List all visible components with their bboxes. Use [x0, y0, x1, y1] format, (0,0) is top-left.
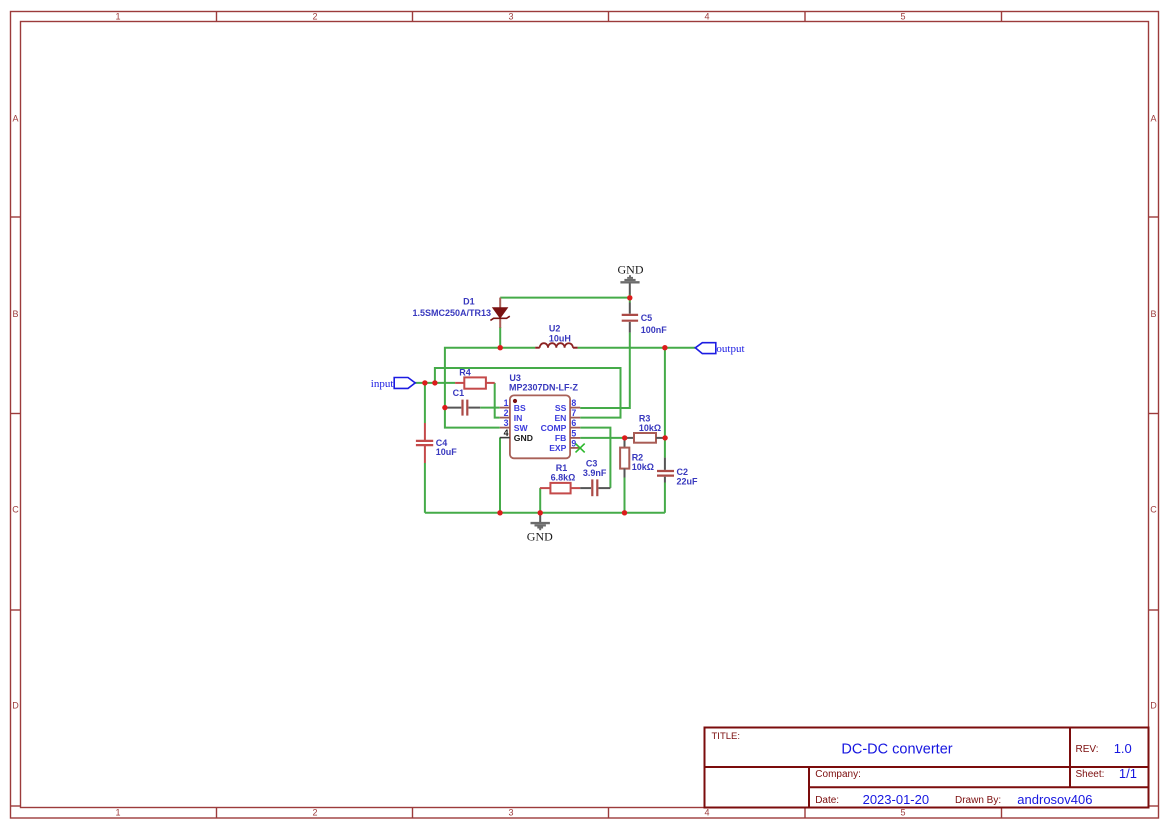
wire C5 bottom to pin8 SS [580, 333, 630, 408]
svg-text:androsov406: androsov406 [1017, 792, 1092, 807]
svg-text:U3: U3 [509, 373, 521, 383]
svg-text:DC-DC converter: DC-DC converter [841, 742, 952, 758]
junction FB/R3/R2 [622, 435, 627, 440]
resistor R3 10k [625, 414, 665, 443]
junction SW/C1 [442, 405, 447, 410]
svg-text:input: input [371, 378, 394, 390]
junction D1/SW rail [498, 345, 503, 350]
svg-text:output: output [716, 343, 744, 355]
resistor R2 10k [620, 438, 654, 478]
capacitor C2 22uF [657, 458, 698, 487]
junction R3/C2 riser [662, 435, 667, 440]
svg-text:8: 8 [571, 398, 576, 408]
wire COMP pin6 to C3 [580, 428, 610, 488]
svg-text:EXP: EXP [549, 443, 566, 453]
svg-text:9: 9 [571, 438, 576, 448]
wire bottom ground rail [425, 512, 665, 514]
svg-text:TITLE:: TITLE: [712, 731, 741, 742]
ground symbol bottom (GND below rail) [527, 513, 553, 544]
svg-text:1: 1 [115, 12, 120, 22]
svg-text:10kΩ: 10kΩ [639, 423, 661, 433]
svg-text:R4: R4 [459, 367, 471, 377]
wire R4 right leg to pin2 [495, 383, 500, 418]
resistor R4 [455, 367, 495, 388]
diode D1 1.5SMC250A/TR13 [412, 297, 509, 328]
svg-text:EN: EN [554, 413, 566, 423]
wire FB pin5 to R3/R2 junction [580, 437, 625, 439]
svg-text:C: C [1150, 505, 1157, 515]
capacitor C3 3.9nF [580, 458, 610, 496]
svg-text:R1: R1 [556, 463, 568, 473]
svg-text:1.5SMC250A/TR13: 1.5SMC250A/TR13 [412, 308, 491, 318]
svg-text:100nF: 100nF [641, 325, 668, 335]
svg-text:Date:: Date: [815, 795, 839, 806]
svg-text:B: B [1150, 309, 1156, 319]
svg-text:5: 5 [900, 12, 905, 22]
svg-text:1: 1 [115, 808, 120, 818]
wire R1 left leg to rail [539, 488, 541, 513]
wire SW node: riser, pin3 leg and top rail to inductor [445, 348, 535, 428]
svg-text:A: A [1150, 114, 1156, 124]
svg-text:Drawn By:: Drawn By: [955, 795, 1001, 806]
wire inductor to output port [578, 347, 696, 349]
svg-text:5: 5 [571, 428, 576, 438]
svg-text:22uF: 22uF [677, 477, 699, 487]
wire C4 top leg [424, 383, 426, 423]
svg-text:C3: C3 [586, 458, 598, 468]
svg-text:IN: IN [514, 413, 523, 423]
svg-text:C1: C1 [453, 388, 465, 398]
svg-text:3: 3 [504, 418, 509, 428]
IC U3 pin 4 GND stub [500, 437, 510, 439]
svg-text:2: 2 [504, 408, 509, 418]
svg-text:D: D [1150, 701, 1157, 711]
svg-text:2023-01-20: 2023-01-20 [863, 792, 930, 807]
svg-text:U2: U2 [549, 324, 561, 334]
svg-text:2: 2 [312, 12, 317, 22]
wire output riser to R3/C2 [664, 348, 666, 458]
svg-text:D: D [12, 701, 19, 711]
wire EN net from input junction to pin7 [435, 368, 621, 418]
svg-text:1/1: 1/1 [1119, 766, 1137, 781]
svg-text:3: 3 [508, 12, 513, 22]
junction output rail riser [662, 345, 667, 350]
title block [705, 728, 1149, 808]
junction rail/R2 [622, 510, 627, 515]
ground symbol top (GND above C5) [618, 263, 644, 295]
junction rail/R1/GND [538, 510, 543, 515]
junction input/C4 [422, 380, 427, 385]
svg-text:GND: GND [514, 433, 533, 443]
wire D1 anode to SW rail [499, 327, 501, 348]
net port output [695, 343, 744, 355]
svg-text:MP2307DN-LF-Z: MP2307DN-LF-Z [509, 383, 579, 393]
svg-text:1: 1 [504, 398, 509, 408]
svg-text:REV:: REV: [1076, 744, 1099, 755]
svg-text:6.8kΩ: 6.8kΩ [551, 473, 576, 483]
svg-text:BS: BS [514, 403, 526, 413]
svg-text:3.9nF: 3.9nF [583, 468, 607, 478]
wire R2 bottom leg [624, 478, 626, 513]
svg-text:FB: FB [555, 433, 566, 443]
capacitor C1 [445, 388, 480, 415]
svg-text:B: B [12, 309, 18, 319]
svg-text:C2: C2 [677, 467, 689, 477]
IC U3 MP2307DN-LF-Z [500, 373, 580, 458]
resistor R1 6.8k [540, 463, 580, 493]
svg-text:10uF: 10uF [436, 447, 458, 457]
junction input/EN [432, 380, 437, 385]
svg-text:10uH: 10uH [549, 333, 571, 343]
svg-text:SW: SW [514, 423, 529, 433]
svg-text:4: 4 [504, 428, 509, 438]
svg-text:Sheet:: Sheet: [1076, 769, 1105, 780]
wire C4 bottom leg [424, 463, 426, 513]
IC U3 pin names [514, 403, 567, 453]
svg-text:1.0: 1.0 [1114, 741, 1132, 756]
svg-text:10kΩ: 10kΩ [632, 462, 654, 472]
svg-text:5: 5 [900, 808, 905, 818]
svg-text:COMP: COMP [541, 423, 567, 433]
wire IC pin4 GND leg [499, 438, 501, 513]
svg-text:SS: SS [555, 403, 567, 413]
svg-text:A: A [12, 114, 18, 124]
junction rail/IC gnd [497, 510, 502, 515]
capacitor C5 100nF [622, 298, 668, 336]
svg-text:6: 6 [571, 418, 576, 428]
svg-text:GND: GND [618, 263, 644, 277]
wire C2 bottom to rail [664, 483, 666, 513]
svg-text:C5: C5 [641, 313, 653, 323]
svg-text:4: 4 [704, 12, 709, 22]
IC U3 pin numbers [504, 398, 577, 448]
svg-text:7: 7 [571, 408, 576, 418]
svg-text:GND: GND [527, 530, 553, 544]
svg-text:C: C [12, 505, 19, 515]
svg-text:Company:: Company: [815, 769, 861, 780]
wire input line [415, 382, 455, 384]
wire C1 right to pin1 [480, 407, 500, 409]
capacitor C4 10uF [416, 423, 457, 463]
svg-text:3: 3 [508, 808, 513, 818]
wire GND top stub green [629, 294, 631, 298]
svg-text:4: 4 [704, 808, 709, 818]
net port input [371, 378, 415, 390]
svg-text:2: 2 [312, 808, 317, 818]
junction GND/C5 [627, 295, 632, 300]
inductor U2 10uH [535, 324, 577, 348]
wire net D1-cathode to GND/C5 top rail [500, 297, 630, 299]
no-connect X on pin 9 EXP [576, 444, 585, 453]
svg-text:D1: D1 [463, 297, 475, 307]
